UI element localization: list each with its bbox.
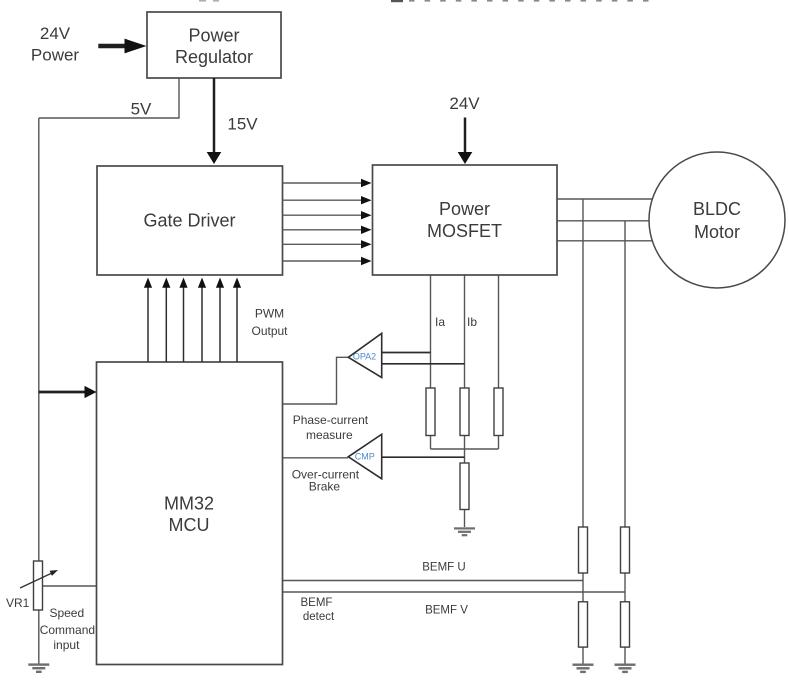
svg-text:Speed: Speed xyxy=(49,606,84,620)
svg-text:BEMF V: BEMF V xyxy=(425,605,468,617)
svg-text:MCU: MCU xyxy=(169,515,210,535)
svg-text:Output: Output xyxy=(251,324,288,338)
svg-text:Motor: Motor xyxy=(694,222,740,242)
svg-text:24V: 24V xyxy=(449,94,480,113)
svg-text:MOSFET: MOSFET xyxy=(427,221,502,241)
svg-text:BEMF U: BEMF U xyxy=(422,562,465,574)
svg-text:OPA2: OPA2 xyxy=(353,352,376,362)
svg-text:measure: measure xyxy=(306,428,353,442)
svg-text:CMP: CMP xyxy=(355,452,375,462)
svg-text:24V: 24V xyxy=(40,24,71,43)
svg-text:Power: Power xyxy=(31,46,80,65)
svg-text:VR1: VR1 xyxy=(6,596,30,610)
svg-text:Ib: Ib xyxy=(467,315,477,329)
svg-text:PWM: PWM xyxy=(255,307,284,321)
svg-text:5V: 5V xyxy=(131,100,152,119)
svg-text:BEMF: BEMF xyxy=(301,597,333,609)
svg-text:MM32: MM32 xyxy=(164,494,214,514)
svg-text:detect: detect xyxy=(303,611,335,623)
svg-text:Ia: Ia xyxy=(435,315,445,329)
svg-text:Phase-current: Phase-current xyxy=(293,413,369,427)
svg-text:Power: Power xyxy=(188,26,239,46)
svg-text:15V: 15V xyxy=(227,115,258,134)
svg-text:Brake: Brake xyxy=(309,479,341,493)
svg-text:Regulator: Regulator xyxy=(175,47,253,67)
svg-text:input: input xyxy=(53,638,80,652)
svg-text:Power: Power xyxy=(439,199,490,219)
svg-text:BLDC: BLDC xyxy=(693,199,741,219)
svg-text:Gate Driver: Gate Driver xyxy=(143,211,235,231)
svg-text:Command: Command xyxy=(40,623,95,637)
